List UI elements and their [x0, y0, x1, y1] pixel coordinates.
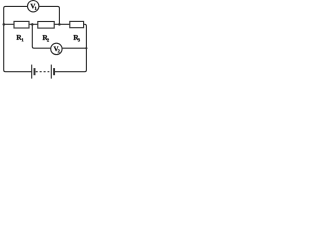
battery BT1 cell1 short thick plate [34, 68, 36, 75]
battery BT1 cell2 long plate [50, 65, 52, 79]
node junction dot between R2 and R3 [58, 23, 61, 26]
resistor R2 label [43, 35, 48, 40]
battery BT1 cell2 short thick plate [53, 68, 55, 75]
wire row2 R2-to-junction-to-R3 [54, 23, 70, 25]
voltmeter V2 label [54, 47, 59, 52]
wire left rail with rounded top-left and bottom-left corners, top segment to V1, bottom segment to battery [4, 6, 32, 71]
resistor R3 label [73, 35, 78, 40]
wire V2 row right to right rail [62, 47, 86, 49]
resistor R2 box [38, 22, 54, 29]
battery dashed link [36, 71, 50, 73]
node junction dot V2 wire to right rail [85, 47, 87, 49]
wire top right segment from V1 turning down to R2-R3 junction [39, 6, 60, 24]
resistor R3 box [70, 21, 84, 27]
resistor R1 box [14, 21, 29, 28]
node junction dot between R1 and R2 [31, 23, 34, 26]
wire row2 R1-to-R2 [29, 23, 38, 25]
wire row2 rail-to-R1 [4, 23, 14, 25]
wire row2 R3 to right rail turning down, right rail, bottom right segment [55, 24, 87, 71]
resistor R1 label [16, 35, 21, 40]
node junction dot on left rail [3, 23, 6, 26]
voltmeter V1 label [30, 4, 35, 9]
wire branch from R1-R2 junction down then right to V2 [32, 24, 50, 48]
voltmeter U2 circle V2 [51, 43, 62, 54]
voltmeter U1 circle V1 [28, 1, 39, 12]
battery BT1 cell1 long plate [31, 65, 33, 79]
